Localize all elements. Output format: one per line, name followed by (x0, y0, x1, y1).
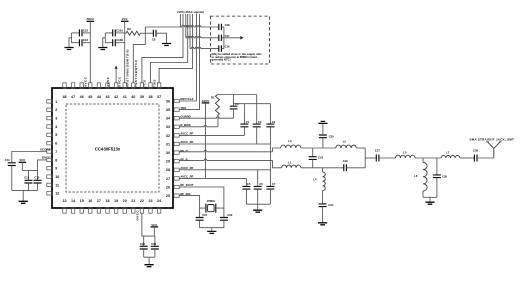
wire AVCC_RF (pin 31) (179, 143, 257, 145)
svg-text:C3: C3 (272, 120, 276, 124)
wire L1 to C19 (301, 167, 344, 169)
wire L3 to node A (301, 147, 336, 149)
capacitor C12 (72, 42, 80, 44)
ground (L6/C26) (425, 202, 434, 204)
svg-text:6: 6 (55, 142, 57, 146)
svg-text:39: 39 (140, 95, 144, 99)
svg-text:C18: C18 (225, 23, 230, 27)
wire GUARD (pin 34) (179, 117, 233, 118)
svg-text:SMA STRAIGHT JACK, SMT: SMA STRAIGHT JACK, SMT (470, 137, 515, 141)
svg-text:29: 29 (166, 160, 170, 164)
power flag AVCC (RF section) (202, 102, 210, 104)
svg-text:C6: C6 (259, 182, 263, 186)
svg-text:41: 41 (123, 95, 127, 99)
capacitor C5 (245, 178, 247, 186)
svg-text:DVCC: DVCC (42, 156, 51, 160)
inductor L7 (441, 156, 460, 158)
svg-text:27: 27 (166, 177, 170, 181)
ground (C8) (162, 44, 171, 46)
wire L7 to C28 (460, 157, 475, 159)
capacitor C16B (105, 42, 112, 44)
svg-text:C28: C28 (473, 149, 478, 153)
wire C28 to antenna (477, 157, 494, 159)
svg-text:8: 8 (55, 158, 57, 162)
wire bus line A (185, 14, 187, 38)
svg-text:25: 25 (166, 194, 170, 198)
svg-text:TEST/SBWTCK: TEST/SBWTCK (134, 59, 138, 87)
svg-text:30: 30 (166, 151, 170, 155)
wire rail B (234, 103, 271, 105)
svg-text:2: 2 (55, 108, 57, 112)
svg-text:20: 20 (123, 199, 127, 203)
svg-text:LVP3 (JTAG signals): LVP3 (JTAG signals) (177, 10, 204, 14)
svg-text:37: 37 (157, 95, 161, 99)
ground (crystal) (207, 231, 216, 233)
svg-text:C17: C17 (225, 34, 230, 38)
svg-text:C5: C5 (247, 182, 251, 186)
IC U1 CC430F513x body (52, 88, 173, 208)
svg-text:C16: C16 (225, 45, 230, 49)
wire AVCC_RF (pin 32) (179, 134, 244, 136)
svg-text:RSVTCLK: RSVTCLK (180, 97, 193, 101)
dashed option box (210, 16, 269, 64)
wire staple C2-C3 (257, 143, 271, 145)
wire C27 to L5 (379, 157, 396, 159)
resistor R2 (125, 32, 126, 34)
capacitor C17 (option) (219, 35, 222, 41)
svg-text:CC430F513x: CC430F513x (95, 147, 121, 152)
svg-text:AVSS: AVSS (106, 77, 110, 87)
svg-text:C11: C11 (24, 176, 29, 180)
svg-text:15: 15 (80, 199, 84, 203)
wire combiner vertical (364, 148, 366, 168)
wire bottom cap ground rail (144, 257, 155, 264)
svg-text:26MHz: 26MHz (207, 199, 216, 203)
svg-text:C21: C21 (202, 213, 207, 217)
svg-text:DVCC: DVCC (118, 76, 122, 87)
wire RF_P (pin 29) (179, 159, 272, 160)
svg-text:C1: C1 (246, 120, 250, 124)
capacitor C25 (322, 138, 324, 148)
svg-text:16: 16 (88, 199, 92, 203)
svg-text:C27: C27 (375, 148, 380, 152)
svg-text:L5: L5 (403, 150, 407, 154)
capacitor C26 (shunt) (436, 158, 438, 175)
inductor L5 (396, 155, 416, 158)
U1 pin stubs and numbers (47, 83, 179, 213)
svg-text:C22: C22 (227, 213, 232, 217)
svg-text:17: 17 (97, 199, 101, 203)
wire AVCC stem down (205, 103, 207, 178)
capacitor C24 (322, 191, 324, 204)
wire L6/C26 ground rail (423, 196, 437, 198)
wire RF_N (pin 30) (179, 150, 272, 151)
svg-text:19: 19 (114, 199, 118, 203)
wire pin 38 staircase (151, 14, 188, 83)
svg-text:AVCC: AVCC (86, 17, 94, 21)
wire combiner to C27 (365, 157, 376, 159)
svg-text:C23: C23 (318, 156, 323, 160)
power flag AVCC (top-left rail) (87, 20, 95, 22)
wire L2 to combiner (356, 147, 365, 149)
svg-text:VCC: VCC (122, 17, 128, 21)
wire VCC join (22, 170, 37, 172)
svg-text:C25: C25 (329, 134, 334, 138)
svg-text:38: 38 (148, 95, 152, 99)
svg-text:47: 47 (71, 95, 75, 99)
svg-text:C8: C8 (152, 38, 156, 42)
wire RF_XIN (pin 25) (179, 196, 199, 204)
capacitor C2 (256, 95, 258, 125)
svg-text:DVCC: DVCC (135, 210, 139, 221)
wire DVCC rail to pin 41 (124, 21, 126, 83)
svg-text:L1: L1 (288, 160, 292, 164)
power flag VCC (left) (19, 161, 27, 163)
wire RST to pin 40 (133, 45, 145, 83)
capacitor C9 (233, 95, 235, 107)
svg-text:C15: C15 (83, 28, 89, 32)
capacitor C13 (8, 163, 16, 166)
power flag VCC (DVCC rail) (121, 20, 129, 22)
wire L5 to L7 (415, 157, 441, 159)
wire RF_P corner down (273, 160, 282, 167)
svg-text:22: 22 (140, 199, 144, 203)
svg-text:C30: C30 (151, 242, 156, 246)
capacitor C16 (option) (219, 45, 222, 51)
wire pin 37 staircase (159, 14, 193, 83)
capacitor C6 (257, 170, 259, 187)
capacitor C29 (143, 236, 145, 246)
wire bus line B (189, 14, 191, 49)
ground (C16A/C16B) (98, 48, 107, 50)
svg-text:L7: L7 (446, 150, 450, 154)
svg-text:TMS: TMS (152, 79, 156, 87)
ground (C5-C7) (253, 210, 262, 212)
svg-text:L6: L6 (414, 174, 418, 178)
svg-text:TCK: TCK (143, 79, 147, 87)
wire AVCC_RF (pin 27) (179, 177, 246, 179)
svg-text:L2: L2 (343, 139, 347, 143)
wire VCC flag stem (153, 227, 155, 236)
svg-text:VCORE: VCORE (40, 147, 51, 151)
capacitor C7 (269, 170, 271, 187)
svg-text:VCC: VCC (151, 223, 157, 227)
svg-text:46: 46 (80, 95, 84, 99)
svg-text:32: 32 (166, 134, 170, 138)
svg-text:C26: C26 (442, 174, 447, 178)
wire option output arrow (224, 37, 240, 39)
inductor L4 (322, 168, 324, 172)
svg-text:1: 1 (55, 100, 57, 104)
wire option caps join (223, 27, 225, 49)
inductor L2 (336, 145, 357, 148)
ground (left block) (19, 201, 28, 203)
capacitor C22 (223, 204, 225, 218)
svg-text:C10: C10 (34, 176, 39, 180)
wire R_BIAS (pin 33) (179, 125, 218, 126)
ground (bottom caps) (145, 265, 154, 267)
svg-text:18: 18 (105, 199, 109, 203)
svg-text:5: 5 (55, 133, 57, 137)
wire pin 36 route up (179, 14, 196, 101)
svg-text:C2: C2 (258, 120, 262, 124)
svg-text:21: 21 (131, 199, 135, 203)
svg-text:42: 42 (114, 95, 118, 99)
resistor R1 (215, 95, 219, 116)
svg-text:7: 7 (55, 150, 57, 154)
svg-text:33: 33 (166, 125, 170, 129)
ground (C24) (318, 223, 327, 225)
inductor L3 (281, 145, 301, 148)
svg-text:26: 26 (166, 185, 170, 189)
ground (C25, flipped) (318, 121, 327, 123)
svg-text:AVCC: AVCC (202, 99, 210, 103)
arrow AVSS (pin 42) (115, 69, 117, 83)
svg-text:31: 31 (166, 142, 170, 146)
svg-text:13: 13 (62, 199, 66, 203)
svg-text:36: 36 (166, 99, 170, 103)
capacitor C16A (105, 32, 112, 34)
antenna SMA jack (493, 148, 495, 158)
capacitor C1 (243, 104, 245, 124)
capacitor C28 (series) (474, 155, 477, 162)
capacitor C11 (28, 171, 30, 181)
svg-text:R2: R2 (127, 27, 131, 31)
wire DVCC pin 22 down (142, 213, 155, 236)
wire RF_XOUT (pin 26) (179, 187, 224, 204)
wire AVCC_RF (pin 28) (179, 169, 270, 171)
wire crystal ground rail (200, 227, 224, 229)
wire C5-C7 ground rail (246, 203, 270, 205)
svg-text:L4: L4 (313, 178, 317, 182)
svg-text:10: 10 (55, 175, 59, 179)
wire RF_N corner up (273, 148, 281, 152)
wire cap pair 1 left join (71, 33, 73, 43)
svg-text:40: 40 (131, 95, 135, 99)
wire C19 to combiner (346, 167, 365, 169)
svg-text:C24: C24 (328, 203, 333, 207)
wire AVCC rail to pin 45 (89, 21, 91, 83)
capacitor C23 (312, 148, 314, 157)
svg-text:C19: C19 (343, 159, 348, 163)
wire pin 35 route up (179, 14, 199, 110)
wire cap row 1 with hops (180, 26, 218, 27)
svg-text:23: 23 (148, 199, 152, 203)
svg-text:C16A: C16A (116, 28, 123, 32)
svg-text:C12: C12 (83, 38, 89, 42)
svg-text:11: 11 (55, 183, 59, 187)
svg-text:43: 43 (105, 95, 109, 99)
capacitor C19 (series) (344, 164, 347, 171)
svg-text:R1: R1 (211, 96, 215, 100)
svg-text:3: 3 (55, 117, 57, 121)
capacitor C18 (option) (219, 24, 222, 30)
capacitor C8 (145, 32, 153, 34)
capacitor C30 (154, 236, 156, 246)
svg-text:generally NTC): generally NTC) (212, 58, 231, 62)
svg-text:C7: C7 (272, 182, 276, 186)
crystal Y1 26MHz (206, 204, 216, 213)
svg-text:C29: C29 (140, 242, 145, 246)
capacitor C15 (72, 32, 80, 34)
capacitor C10 (37, 171, 39, 181)
svg-text:L3: L3 (288, 139, 292, 143)
svg-text:12: 12 (55, 192, 59, 196)
ground (C15/C12) (64, 48, 73, 50)
svg-text:AVCC: AVCC (83, 76, 87, 87)
svg-text:45: 45 (88, 95, 92, 99)
svg-text:35: 35 (166, 108, 170, 112)
svg-text:9: 9 (55, 167, 57, 171)
inductor L1 (282, 165, 301, 168)
svg-text:C16B: C16B (116, 38, 123, 42)
wire rail A (AVCC top) (217, 94, 256, 96)
wire VCORE (pin 7) (12, 152, 47, 163)
svg-text:C13: C13 (5, 158, 10, 162)
svg-text:48: 48 (62, 95, 66, 99)
svg-text:VCC: VCC (19, 158, 25, 162)
wire cap pair 2 left join (104, 33, 106, 43)
svg-text:TDO: TDO (180, 106, 187, 110)
wire cap row 3 with hops (190, 47, 219, 48)
power flag VCC (bottom) (151, 226, 159, 228)
wire pin 39 staircase (142, 14, 183, 83)
wire left ground rail (12, 189, 38, 191)
node RST junction (144, 27, 146, 45)
capacitor C21 (199, 204, 201, 218)
inductor L6 (shunt) (422, 158, 424, 162)
capacitor C27 (series) (376, 155, 379, 162)
wire C3 column down to pin 28 rail (269, 144, 271, 170)
wire DVCC (pin 8) (38, 160, 47, 171)
svg-text:nRST/NMI/SBWTDIO: nRST/NMI/SBWTDIO (125, 49, 129, 87)
wire cap row 2 with hops (186, 36, 219, 37)
capacitor C3 (269, 104, 271, 124)
svg-text:28: 28 (166, 168, 170, 172)
wire RST up to bus (145, 14, 180, 27)
